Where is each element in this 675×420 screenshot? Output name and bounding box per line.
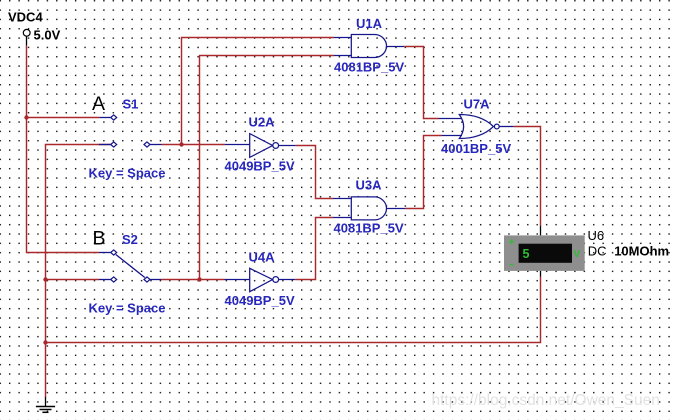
svg-text:4049BP_5V: 4049BP_5V [225,293,295,308]
svg-text:Key = Space: Key = Space [89,165,166,180]
voltmeter U6 body [504,235,585,271]
svg-text:U3A: U3A [356,178,383,193]
switch S1 terminal bottom throw [111,142,117,147]
wire blue stub into U1A input A [334,37,352,39]
svg-text:4081BP_5V: 4081BP_5V [334,220,404,235]
wire branch to S2 bottom throw [46,279,100,281]
svg-text:S1: S1 [123,97,139,112]
svg-text:4001BP_5V: 4001BP_5V [441,141,511,156]
wire VDC4 stub (black) [26,36,28,45]
wire voltmeter bottom stub (black) [540,271,542,277]
junction net B [197,277,201,281]
inverter U2A bubble [273,143,279,149]
wire U2A output to U3A input A [296,146,333,199]
junction ground rail [43,340,47,344]
wire ground net: S1 bottom throw left and down to ground [46,145,111,398]
wire U1A output to U7A input A [404,47,438,119]
svg-text:VDC4: VDC4 [8,10,43,25]
svg-text:5: 5 [523,247,530,261]
junction at VDC/S1 branch [24,115,28,119]
svg-text:DC: DC [588,244,607,259]
wire U1A output blue stub [386,46,404,48]
wire S1 common to U2A input (net A) [162,144,226,146]
svg-text:5.0V: 5.0V [34,28,61,43]
wire blue stub S1 common [150,144,162,146]
wire blue stub S1 top throw [99,117,110,119]
wire blue stub into U7A input B [442,135,463,137]
wire blue stub into U1A input B [334,55,352,57]
svg-text:U7A: U7A [464,97,491,112]
wire U3A output to U7A input B [406,136,442,209]
svg-text:10MOhm: 10MOhm [614,244,669,259]
svg-text:U2A: U2A [249,115,276,130]
ground [36,407,55,413]
voltmeter U6 plus mark [509,239,514,244]
NOR gate U7A [459,115,493,139]
switch S2 terminal bottom throw [111,277,117,282]
wire U3A output blue stub [386,208,405,210]
wire blue stub S2 top throw [99,252,111,254]
wire net B up to U1A input B [200,56,335,280]
wire branch to S1 top throw [27,117,100,119]
svg-text:Key = Space: Key = Space [89,301,166,316]
voltmeter U6 display [519,244,572,263]
voltmeter U6 minus mark [510,264,514,266]
wire blue stub S1 bottom throw [99,144,111,146]
wire VDC4 down to S2 top throw [27,46,100,253]
wire blue stub into U3A input B [333,217,352,219]
wire S2 common to U4A input (net B) [161,279,225,281]
inverter U2A [250,134,273,158]
wire voltmeter top stub (black) [540,226,542,235]
wire U4A output up to U3A input B [295,218,333,280]
wire U7A output to voltmeter positive [514,127,541,227]
switch S1 terminal common [144,142,150,147]
switch S2 blade [116,255,145,278]
switch S1 terminal top throw [111,115,117,120]
svg-text:U6: U6 [588,228,605,243]
NOR gate U7A bubble [494,124,499,129]
svg-text:B: B [93,227,106,249]
svg-text:4081BP_5V: 4081BP_5V [334,59,404,74]
wire blue stub into U2A input [225,144,250,146]
wire U2A output blue stub [279,145,296,147]
svg-text:A: A [92,93,105,115]
wire net A up to U1A input A [182,38,335,145]
wire blue stub into U4A input [225,279,251,281]
svg-text:V: V [573,248,580,260]
wire ground stub (black) [45,397,47,407]
wire U4A output blue stub [279,279,296,281]
AND gate U3A [351,197,386,220]
wire blue stub into U7A input A [439,118,463,120]
DC source VDC4 terminal [23,29,30,36]
inverter U4A bubble [273,277,279,283]
svg-text:U4A: U4A [249,249,276,264]
wire U7A output blue stub [499,126,513,128]
wire blue stub into U3A input A [333,198,352,200]
junction net A [179,142,183,146]
inverter U4A [250,268,273,291]
svg-text:U1A: U1A [356,16,383,31]
AND gate U1A [351,35,386,58]
svg-text:S2: S2 [122,232,138,247]
wire blue stub S2 bottom throw [99,279,111,281]
wire bottom ground rail to voltmeter negative [46,277,541,343]
svg-text:https://blog.csdn.net/Owen_Sue: https://blog.csdn.net/Owen_Suen [432,392,660,409]
junction ground net at S2 branch [43,277,47,281]
svg-text:4049BP_5V: 4049BP_5V [225,158,295,173]
switch S2 terminal top throw [111,250,117,255]
switch S2 terminal common [144,277,150,282]
wire blue stub S2 common [150,279,161,281]
